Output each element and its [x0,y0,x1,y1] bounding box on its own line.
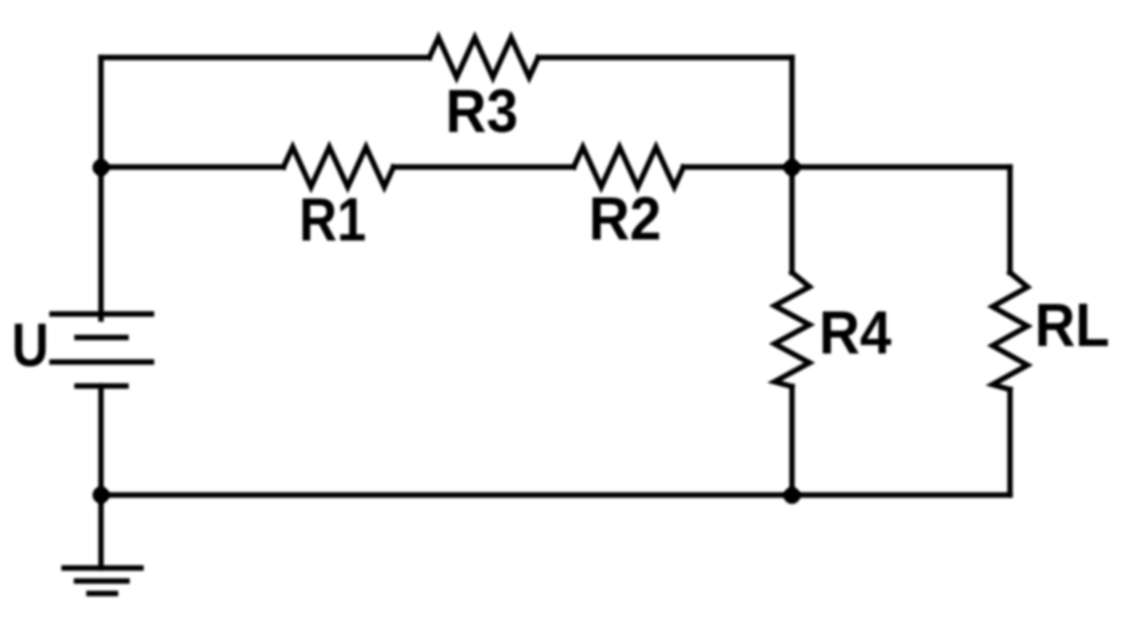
wire middle rail segment 3 [683,164,1010,169]
svg-text:R4: R4 [819,300,892,367]
svg-text:RL: RL [1035,292,1110,360]
wire middle rail segment 2 [394,164,574,169]
wire top rail right [538,55,792,60]
resistor R2 [574,147,684,187]
svg-text:R2: R2 [589,186,662,253]
svg-text:R3: R3 [446,78,519,145]
wire R4 branch down from top rail [789,58,794,273]
wire bottom rail [101,492,1010,497]
node left bottom junction [93,487,110,504]
battery U plate 4 short [77,383,126,388]
ground bar 3 [89,591,116,596]
resistor R1 [284,147,394,187]
node right bottom junction [784,487,801,504]
ground bar 2 [77,578,128,583]
wire battery bottom to ground [98,386,103,568]
wire RL branch down [1007,167,1012,273]
battery U plate 3 long [52,359,152,364]
battery U plate 2 short [77,335,126,340]
ground bar 1 [64,565,141,570]
resistor R4 [775,273,810,387]
resistor RL [993,273,1028,390]
node left middle junction [93,159,110,176]
node right middle junction [784,159,801,176]
wire middle rail segment 1 [101,164,284,169]
svg-text:R1: R1 [299,186,366,255]
wire R4 to bottom rail [789,387,794,496]
battery U plate 1 long [52,311,152,316]
wire top rail [101,55,429,60]
resistor R3 [429,38,538,78]
wire RL to bottom rail [1007,390,1012,496]
wire left rail upper [98,58,103,320]
svg-text:U: U [12,311,49,379]
